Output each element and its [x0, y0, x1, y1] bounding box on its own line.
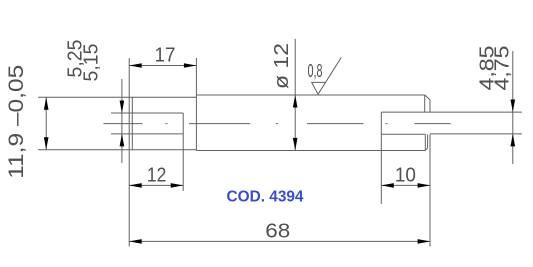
- left flat bottom edge + ext: [111, 133, 183, 135]
- right flat left edge + ext for 10 dim: [380, 112, 382, 204]
- left flat right edge + ext for 12 dim: [182, 113, 184, 191]
- arrow 17 left: [129, 63, 142, 68]
- svg-text:ø 12: ø 12: [271, 43, 293, 89]
- svg-text:0,8: 0,8: [308, 61, 323, 81]
- shaft bottom edge main section: [196, 150, 425, 152]
- right runout vertical top: [424, 95, 426, 112]
- arrow 17 right: [184, 63, 197, 68]
- dim line 12: [129, 184, 183, 186]
- right flat bottom edge: [381, 133, 425, 135]
- arrow 4.85 down: [511, 100, 516, 113]
- arrow 11.9 bottom: [44, 137, 49, 150]
- arrow 68 left: [129, 239, 142, 244]
- dim line 10: [381, 184, 430, 186]
- svg-text:68: 68: [265, 221, 290, 243]
- arrow 11.9 top: [44, 97, 49, 110]
- shaft top edge main section: [196, 94, 424, 96]
- shaft bottom edge left section + ext line for 11.9: [38, 149, 196, 151]
- arrow dia12 top: [293, 95, 298, 108]
- shaft top edge left section + ext line for 11.9: [38, 96, 196, 98]
- shaft left end face + extension line: [128, 58, 130, 247]
- arrow 10 right: [418, 183, 431, 188]
- dim line 11.9: [45, 97, 47, 150]
- centerline: [103, 123, 450, 125]
- dim line 68: [129, 240, 430, 242]
- arrow 10 left: [381, 183, 394, 188]
- right runout vertical bottom b: [427, 134, 429, 148]
- svg-text:11,9 –0,05: 11,9 –0,05: [5, 65, 28, 179]
- arrow 68 right: [418, 239, 431, 244]
- dim line 5.25: [121, 79, 123, 163]
- left chamfer runout line: [131, 97, 133, 150]
- right end face upper part: [429, 100, 431, 113]
- svg-text:5,15: 5,15: [81, 44, 103, 82]
- dim line 17: [129, 65, 196, 67]
- arrow dia12 bottom: [293, 138, 298, 151]
- dim line 4.85: [512, 51, 514, 164]
- diameter step line + ext for 17 dim: [195, 58, 197, 151]
- left flat top edge + ext: [111, 112, 183, 114]
- ext line for 4.75: [430, 133, 522, 135]
- svg-text:10: 10: [395, 165, 416, 187]
- right bottom chamfer diagonal: [426, 148, 428, 151]
- arrow 12 left: [129, 183, 142, 188]
- right end chamfer diagonal top: [425, 95, 430, 100]
- right runout vertical bottom a: [424, 134, 426, 150]
- arrow 5.25 up: [120, 134, 125, 147]
- arrow 4.85 up: [511, 134, 516, 147]
- arrow 5.25 down: [120, 101, 125, 114]
- svg-text:12: 12: [147, 165, 167, 187]
- dim line diameter 12: [294, 39, 296, 151]
- arrow 12 right: [171, 183, 184, 188]
- surface roughness symbol: [312, 57, 342, 94]
- svg-text:COD. 4394: COD. 4394: [227, 189, 304, 206]
- svg-text:17: 17: [155, 45, 176, 67]
- svg-text:4,75: 4,75: [492, 46, 514, 91]
- right end face lower part + ext line for 68: [429, 134, 431, 246]
- right flat top edge + ext for 4.85: [381, 111, 522, 113]
